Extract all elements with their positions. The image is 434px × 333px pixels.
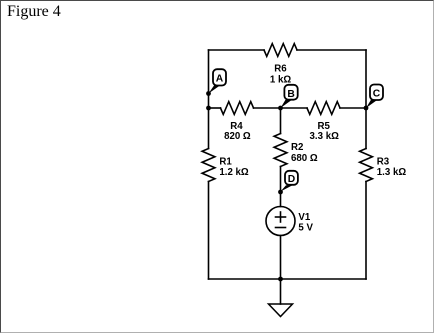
caption Figure 4 (7, 3, 61, 21)
resistor R3 (360, 149, 373, 182)
wire middle vertical upper (280, 108, 282, 134)
svg-text:1.2 kΩ: 1.2 kΩ (219, 167, 249, 178)
wire middle vertical mid (280, 167, 282, 207)
wire bottom horizontal (209, 278, 367, 280)
node box D (285, 171, 298, 185)
svg-text:R2: R2 (291, 142, 303, 153)
resistor R2 (274, 134, 287, 167)
svg-text:R1: R1 (219, 156, 232, 167)
svg-text:R3: R3 (377, 156, 390, 167)
V1 plus sign (276, 216, 286, 218)
junction node C (364, 106, 369, 111)
callout tail D (281, 185, 293, 191)
voltage source V1 (266, 207, 295, 236)
svg-text:R6: R6 (274, 63, 287, 74)
junction left-mid (206, 106, 211, 111)
junction bottom (278, 277, 283, 282)
callout tail C (366, 100, 378, 108)
svg-text:5 V: 5 V (298, 222, 313, 233)
resistor R6 (264, 44, 297, 57)
node box A (213, 69, 226, 85)
svg-text:D: D (288, 174, 295, 185)
svg-text:820 Ω: 820 Ω (224, 131, 251, 142)
wire middle vertical lower (280, 236, 282, 280)
resistor R1 (202, 149, 215, 182)
svg-text:C: C (373, 88, 381, 99)
wire top right segment (297, 49, 366, 51)
svg-text:1 kΩ: 1 kΩ (270, 74, 291, 85)
wire right vertical upper (365, 50, 367, 149)
wire left vertical lower (208, 182, 210, 280)
wire top left segment (209, 49, 265, 51)
svg-text:1.3 kΩ: 1.3 kΩ (377, 167, 407, 178)
callout tail B (281, 100, 293, 108)
resistor R4 (221, 102, 254, 115)
node dot D (278, 190, 283, 195)
ground stem wire (280, 279, 282, 304)
node box B (284, 85, 297, 100)
node dot A (206, 91, 211, 96)
wire mid horizontal center (254, 107, 308, 109)
callout tail A (209, 85, 222, 94)
V1 minus sign (276, 227, 286, 229)
wire mid horizontal right (340, 107, 366, 109)
wire right vertical lower (365, 182, 367, 280)
svg-text:680 Ω: 680 Ω (291, 153, 318, 164)
ground symbol (269, 304, 293, 317)
junction node B (278, 106, 283, 111)
node box C (370, 85, 383, 101)
resistor R5 (307, 102, 340, 115)
svg-text:3.3 kΩ: 3.3 kΩ (310, 131, 340, 142)
svg-text:A: A (216, 73, 224, 84)
svg-text:B: B (287, 89, 294, 100)
wire left vertical upper (208, 50, 210, 149)
wire mid horizontal left (209, 107, 221, 109)
